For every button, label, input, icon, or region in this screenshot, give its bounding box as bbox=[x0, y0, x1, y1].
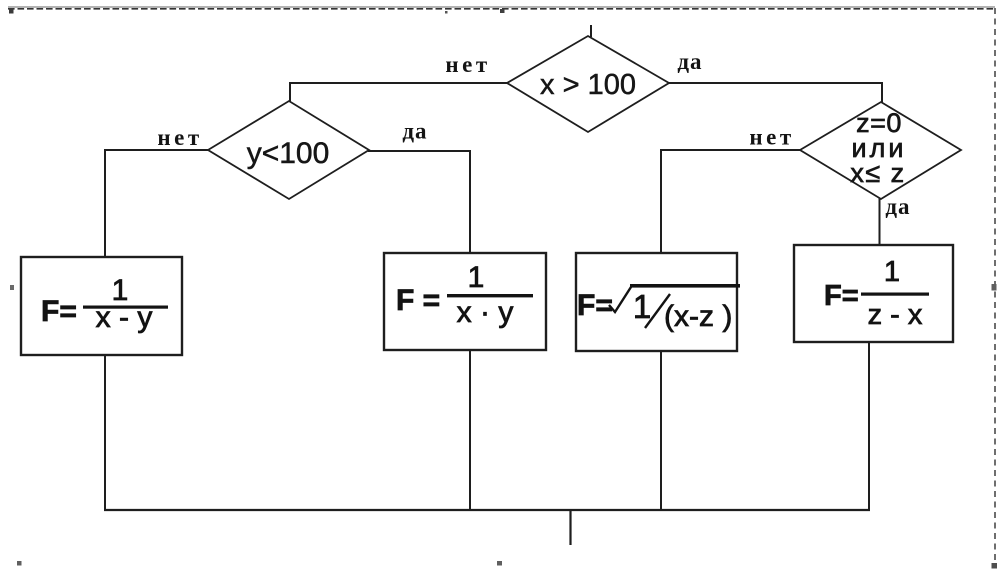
wire D3 no-branch to box B3 bbox=[661, 150, 801, 254]
registration dot top small bbox=[445, 11, 448, 14]
wire stub above decision D1 bbox=[590, 25, 592, 37]
svg-text:да: да bbox=[677, 49, 702, 74]
decision D2: y<100 bbox=[208, 101, 369, 199]
wire D3 yes-branch to box B4 bbox=[879, 198, 881, 246]
wire D1 yes-branch to D3 bbox=[668, 83, 882, 103]
wire B4 bottom bbox=[868, 342, 870, 510]
process box B2: F = 1/(x · y) bbox=[384, 253, 546, 350]
wire D1 no-branch to D2 bbox=[290, 83, 508, 103]
svg-text:x≤ z: x≤ z bbox=[850, 158, 905, 188]
wire B1 bottom bbox=[104, 355, 106, 510]
wire B2 bottom bbox=[469, 350, 471, 510]
wire D2 yes-branch to box B2 bbox=[368, 151, 470, 254]
corner mark top-left bbox=[9, 8, 14, 14]
page top dashed border bbox=[8, 7, 995, 9]
wire D2 no-branch to box B1 bbox=[105, 150, 209, 258]
svg-text:нет: нет bbox=[157, 125, 202, 150]
svg-text:F =: F = bbox=[396, 284, 440, 317]
svg-text:y<100: y<100 bbox=[247, 137, 330, 170]
margin dot bottom-left bbox=[17, 561, 22, 566]
svg-text:да: да bbox=[885, 194, 910, 219]
margin dot bottom-right bbox=[992, 563, 998, 569]
svg-text:x · y: x · y bbox=[457, 296, 514, 329]
decision D1: x > 100 bbox=[507, 36, 669, 132]
svg-text:1: 1 bbox=[633, 288, 651, 325]
svg-text:нет: нет bbox=[749, 125, 794, 150]
process box B4: F = 1/(z - x) bbox=[794, 245, 953, 342]
process box B3: F = sqrt(1/(x-z)) bbox=[576, 253, 740, 351]
svg-text:да: да bbox=[402, 119, 427, 144]
decision D3: z=0 или x<=z bbox=[800, 102, 961, 199]
svg-text:x > 100: x > 100 bbox=[540, 69, 636, 101]
svg-text:(x-z ): (x-z ) bbox=[664, 300, 732, 333]
bottom bus wire bbox=[104, 509, 870, 511]
svg-text:нет: нет bbox=[445, 52, 490, 77]
svg-text:z - x: z - x bbox=[868, 299, 923, 331]
svg-text:x - y: x - y bbox=[96, 301, 153, 334]
svg-text:1: 1 bbox=[884, 256, 900, 288]
process box B1: F = 1/(x - y) bbox=[21, 257, 182, 355]
margin dot bottom-center bbox=[497, 561, 502, 566]
margin dot left bbox=[10, 285, 14, 290]
wire B3 bottom bbox=[660, 350, 662, 510]
svg-text:1: 1 bbox=[468, 261, 485, 294]
page right dashed border bbox=[994, 8, 996, 560]
svg-text:F=: F= bbox=[41, 295, 77, 328]
svg-text:F=: F= bbox=[824, 280, 859, 312]
bottom stub wire bbox=[569, 510, 571, 545]
margin dot right bbox=[992, 284, 997, 291]
registration square top center bbox=[500, 9, 505, 13]
svg-text:F=: F= bbox=[577, 289, 613, 322]
